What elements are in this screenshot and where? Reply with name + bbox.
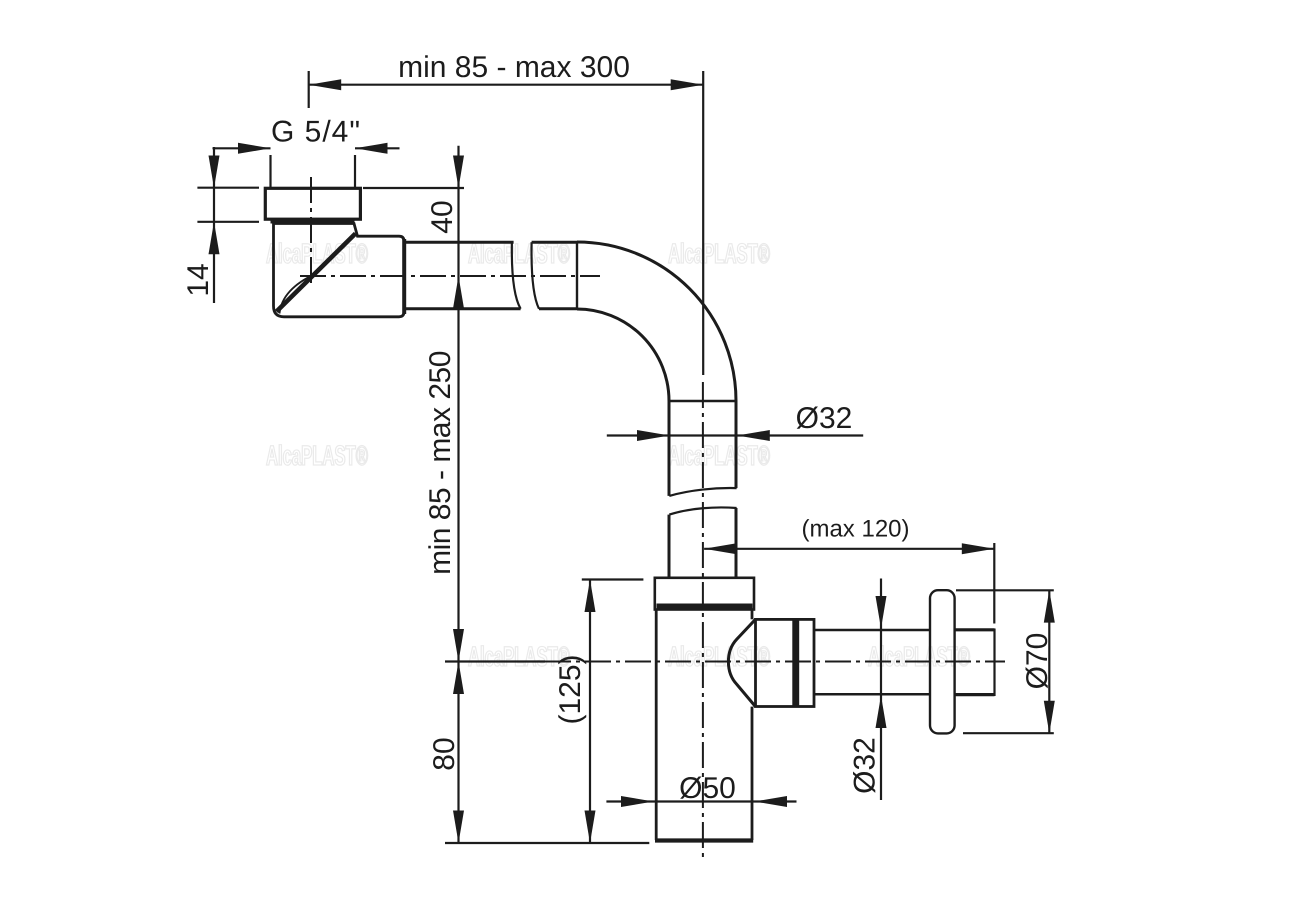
svg-text:G 5/4": G 5/4"	[271, 116, 361, 149]
svg-text:min 85 - max 300: min 85 - max 300	[398, 51, 630, 84]
svg-text:80: 80	[428, 737, 461, 770]
svg-text:Ø32: Ø32	[849, 737, 882, 794]
svg-text:40: 40	[426, 200, 459, 233]
svg-text:(max 120): (max 120)	[801, 516, 909, 543]
svg-text:Ø50: Ø50	[679, 772, 736, 805]
svg-text:(125): (125)	[554, 654, 587, 724]
svg-text:min 85 - max 250: min 85 - max 250	[424, 351, 457, 575]
svg-text:Ø32: Ø32	[796, 402, 853, 435]
svg-text:14: 14	[182, 263, 215, 296]
svg-text:Ø70: Ø70	[1021, 633, 1054, 690]
